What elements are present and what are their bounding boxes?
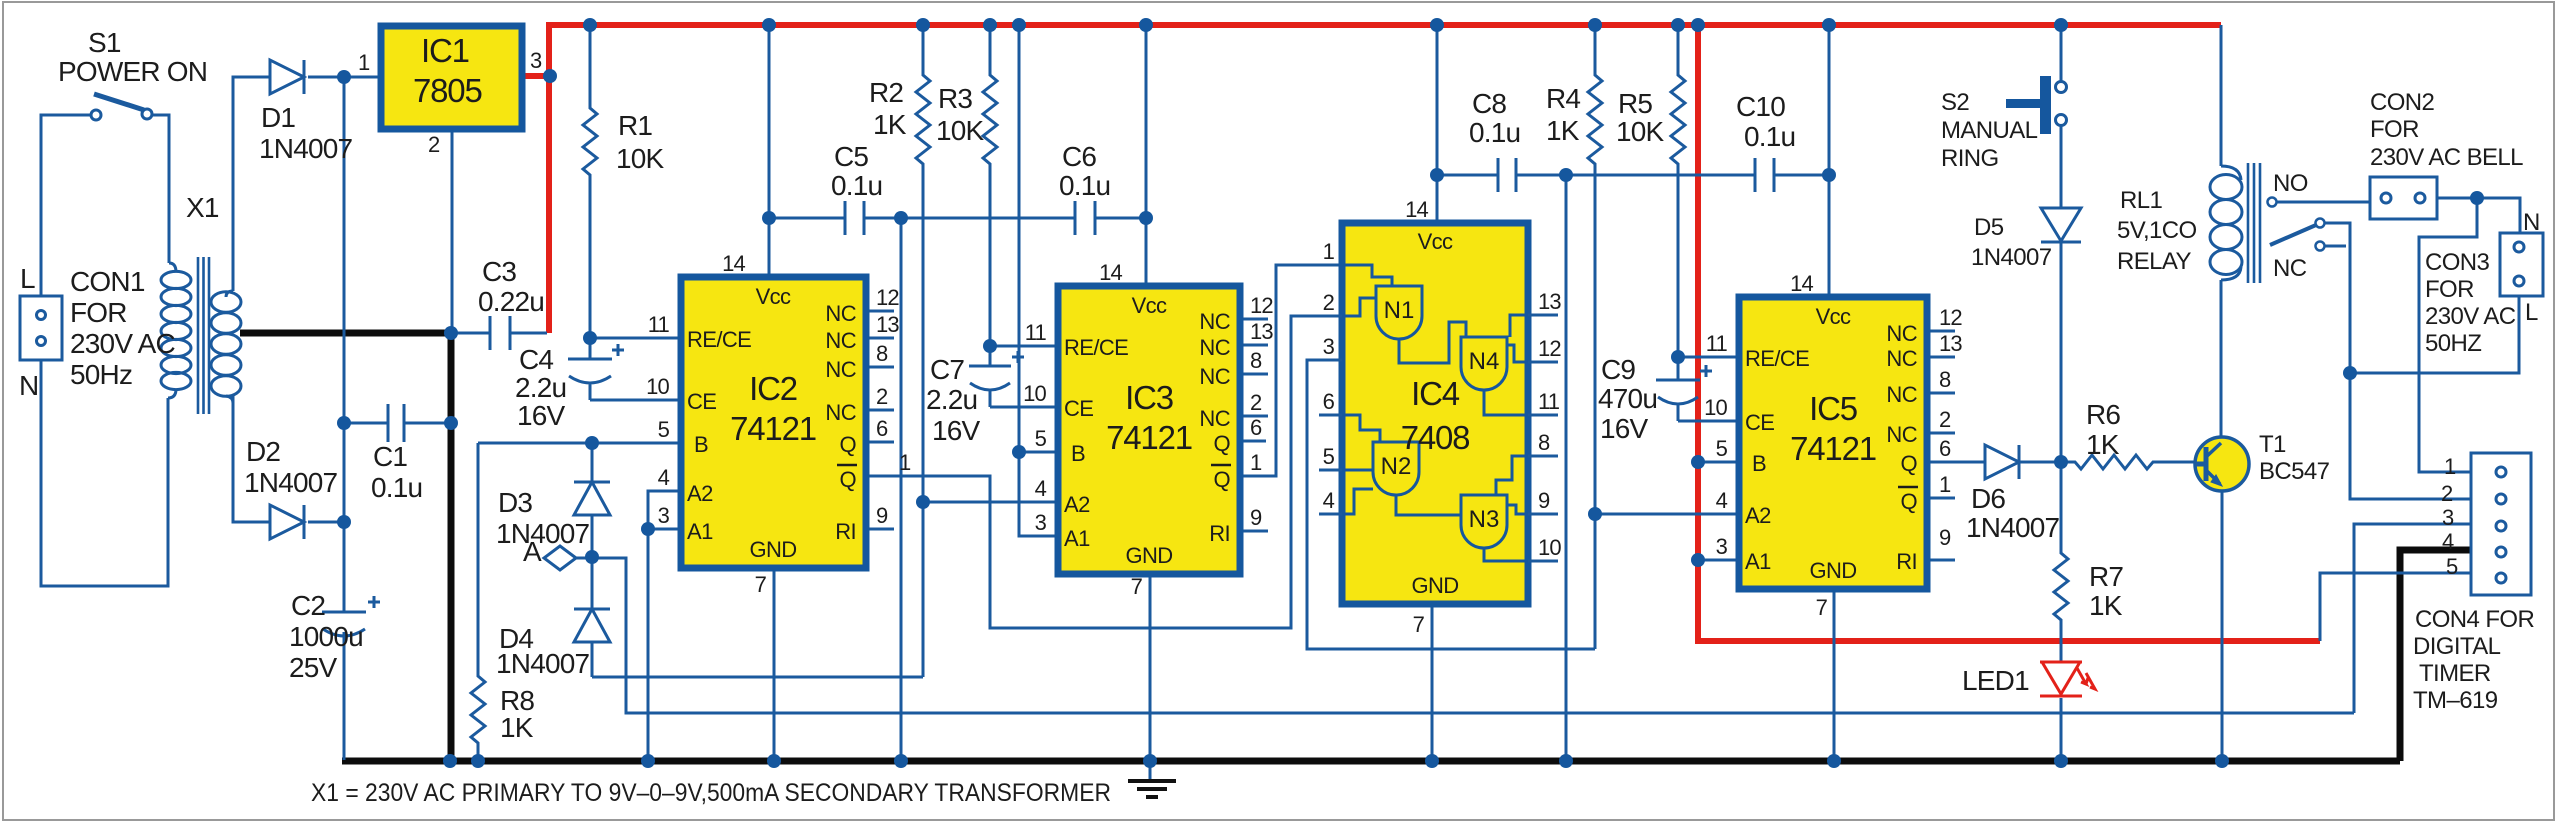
svg-text:FOR: FOR (70, 297, 127, 328)
resistor R3 (983, 25, 997, 346)
svg-text:A2: A2 (1064, 492, 1090, 517)
regulator IC1 7805 (381, 26, 522, 129)
labels IC1 (413, 32, 482, 109)
wire ground vertical (448, 333, 455, 761)
svg-text:7: 7 (755, 572, 767, 597)
wire CON4 pin4 ground (2400, 550, 2471, 761)
svg-text:74121: 74121 (730, 410, 816, 447)
capacitor C10 (1755, 158, 1829, 192)
svg-text:1: 1 (1939, 472, 1951, 497)
svg-text:NC: NC (825, 357, 856, 382)
wire R5 to IC5 RE/CE pin11 (1678, 356, 1739, 359)
connector CON1 (20, 296, 62, 360)
junction (769,218) (762, 211, 776, 225)
wire D2 cathode (308, 521, 344, 524)
relay pole wire to CON3 L net (2323, 223, 2350, 373)
junction (1829,25) (1822, 18, 1836, 32)
svg-text:Vcc: Vcc (1816, 304, 1851, 329)
junction (1146,218) (1139, 211, 1153, 225)
svg-text:NC: NC (1199, 406, 1230, 431)
svg-text:7: 7 (1413, 612, 1425, 637)
svg-text:RI: RI (1209, 521, 1230, 546)
svg-text:R3: R3 (938, 83, 972, 114)
svg-text:Q: Q (1213, 467, 1230, 492)
connector CON2 (2370, 177, 2437, 219)
svg-text:4: 4 (2442, 529, 2454, 554)
wire R3 to IC3 RE/CE pin11 (990, 345, 1058, 348)
junction (550,76) (543, 69, 557, 83)
wire IC5 pin7 GND (1833, 589, 1836, 760)
svg-text:5: 5 (658, 417, 670, 442)
svg-text:A2: A2 (1745, 503, 1771, 528)
labels right section (1941, 89, 2540, 714)
svg-text:RI: RI (1896, 549, 1917, 574)
svg-text:NC: NC (825, 301, 856, 326)
svg-text:11: 11 (648, 312, 670, 337)
svg-text:1: 1 (1323, 239, 1335, 264)
svg-text:L: L (2525, 299, 2538, 326)
svg-text:N1: N1 (1384, 297, 1415, 324)
junction (1678,25) (1671, 18, 1685, 32)
svg-text:FOR: FOR (2425, 276, 2474, 303)
wire relay coil to T1 collector (2220, 25, 2223, 437)
svg-text:A1: A1 (1064, 526, 1090, 551)
capacitor C2 (322, 596, 380, 636)
junction (1019,25) (1012, 18, 1026, 32)
wire +5V to CON4 pin5 (2320, 573, 2471, 641)
svg-text:NC: NC (825, 400, 856, 425)
svg-text:14: 14 (1790, 271, 1813, 296)
junction (478,761) (471, 754, 485, 768)
svg-text:12: 12 (876, 285, 899, 310)
svg-text:A: A (523, 536, 542, 567)
transistor T1 (2195, 437, 2249, 491)
capacitor C9 (1656, 357, 1700, 421)
svg-text:RE/CE: RE/CE (1745, 346, 1809, 371)
wire IC2 right NC stubs (866, 311, 894, 529)
svg-text:1: 1 (1250, 450, 1262, 475)
svg-text:C4: C4 (519, 344, 553, 375)
junction (344,423) (337, 416, 351, 430)
svg-text:CON3: CON3 (2425, 249, 2490, 276)
svg-text:Vcc: Vcc (756, 284, 791, 309)
svg-text:10K: 10K (936, 115, 985, 146)
push switch S2 (2006, 76, 2067, 134)
junction (1150,761) (1143, 754, 1157, 768)
svg-text:FOR: FOR (2370, 116, 2419, 143)
svg-text:5V,1CO: 5V,1CO (2117, 217, 2197, 244)
svg-text:470u: 470u (1598, 383, 1657, 414)
svg-text:S2: S2 (1941, 89, 1969, 116)
svg-text:D1: D1 (261, 102, 295, 133)
labels IC2 (687, 284, 857, 562)
wire C4 to IC2 CE pin10 (590, 399, 681, 402)
svg-text:D6: D6 (1971, 483, 2005, 514)
svg-text:1N4007: 1N4007 (244, 467, 338, 498)
wire S2 to D5 (2060, 25, 2063, 208)
svg-text:12: 12 (1538, 336, 1561, 361)
capacitor C4 (568, 338, 612, 400)
junction (1019,452) (1012, 445, 1026, 459)
svg-text:CE: CE (1064, 396, 1093, 421)
relay RL1 coil (2210, 163, 2260, 283)
svg-text:7: 7 (1131, 574, 1143, 599)
wire CON2 to CON3 N (2437, 198, 2520, 233)
svg-text:74121: 74121 (1790, 430, 1876, 467)
svg-text:4: 4 (1716, 488, 1728, 513)
LED1 (2040, 662, 2095, 696)
svg-text:3: 3 (530, 48, 542, 73)
svg-text:POWER ON: POWER ON (58, 56, 207, 87)
svg-text:BC547: BC547 (2259, 458, 2330, 485)
junction (923,502) (916, 495, 930, 509)
junction (344,77) (337, 70, 351, 84)
svg-text:IC2: IC2 (749, 370, 797, 407)
svg-text:1N4007: 1N4007 (259, 133, 353, 164)
junction (344,522) (337, 515, 351, 529)
svg-text:N2: N2 (1381, 453, 1412, 480)
svg-text:C10: C10 (1736, 91, 1785, 122)
svg-text:S1: S1 (88, 27, 121, 58)
junction (2477,198) (2470, 191, 2484, 205)
svg-text:5: 5 (1323, 444, 1335, 469)
wire ground rail (342, 758, 2400, 765)
svg-text:1N4007: 1N4007 (1971, 244, 2052, 271)
svg-text:3: 3 (1035, 510, 1047, 535)
IC4 left pin stubs (1319, 316, 1342, 514)
svg-text:9: 9 (876, 503, 888, 528)
ground black wires (240, 333, 2471, 761)
svg-text:50HZ: 50HZ (2425, 330, 2481, 357)
wire C9 to IC5 CE pin10 (1678, 420, 1739, 423)
svg-text:10: 10 (646, 374, 669, 399)
wire IC3 Q-bar pin1 to IC4 pin1 (1240, 265, 1342, 476)
svg-text:MANUAL: MANUAL (1941, 117, 2038, 144)
wire R1 to IC2 RE/CE pin11 (590, 337, 681, 340)
resistor R7 (2054, 462, 2068, 662)
svg-text:14: 14 (722, 251, 745, 276)
svg-text:1: 1 (2444, 454, 2456, 479)
svg-text:1: 1 (358, 50, 370, 75)
svg-text:CON2: CON2 (2370, 89, 2435, 116)
svg-text:GND: GND (1411, 573, 1458, 598)
svg-text:RL1: RL1 (2120, 187, 2162, 214)
svg-text:L: L (20, 263, 35, 294)
wire raw DC vertical (343, 77, 346, 612)
svg-text:NO: NO (2273, 170, 2308, 197)
+5V red rail (522, 25, 2320, 641)
svg-text:0.1u: 0.1u (1469, 117, 1520, 148)
relay NO contact wire to CON2 (2276, 201, 2370, 204)
svg-text:5: 5 (1716, 436, 1728, 461)
wire IC1 pin2 (451, 129, 454, 333)
capacitor C3 (451, 316, 547, 350)
IC2 74121 box (681, 277, 866, 568)
wire C8 node to ground rail (1565, 175, 1568, 760)
svg-text:2: 2 (428, 132, 440, 157)
svg-text:2: 2 (1250, 390, 1262, 415)
svg-text:25V: 25V (289, 652, 338, 683)
svg-text:0.1u: 0.1u (371, 472, 422, 503)
svg-text:16V: 16V (1600, 413, 1649, 444)
junction (1698,25) (1691, 18, 1705, 32)
IC4 right pin stubs (1528, 315, 1558, 561)
svg-text:R5: R5 (1618, 88, 1652, 119)
labels IC4 (1411, 229, 1458, 598)
svg-text:1K: 1K (2086, 429, 2120, 460)
junction (451,333) (444, 326, 458, 340)
diode D6 (1985, 445, 2061, 479)
svg-text:RE/CE: RE/CE (1064, 335, 1128, 360)
svg-text:1000u: 1000u (289, 621, 363, 652)
capacitor C5 (769, 201, 1075, 235)
wire CON1 L to switch (41, 115, 91, 296)
labels IC5 (1745, 304, 1918, 583)
labels left section (19, 27, 665, 743)
wire CON3 L to NC net (2350, 296, 2519, 373)
connector CON4 (2471, 453, 2531, 595)
transformer X1 (161, 257, 241, 414)
svg-text:3: 3 (1323, 334, 1335, 359)
wire IC2 A2 A1 to ground (648, 491, 681, 760)
junction (1595,514) (1588, 507, 1602, 521)
svg-text:IC5: IC5 (1809, 390, 1857, 427)
svg-text:RELAY: RELAY (2117, 248, 2192, 275)
svg-text:B: B (1071, 441, 1085, 466)
svg-text:Q: Q (839, 432, 856, 457)
svg-text:C9: C9 (1601, 354, 1635, 385)
svg-text:CON1: CON1 (70, 266, 145, 297)
resistor R1 (583, 25, 597, 338)
junction (2222,761) (2215, 754, 2229, 768)
wire NC net to CON4 pin2 (2350, 373, 2471, 499)
svg-text:N: N (2523, 209, 2540, 236)
svg-text:1K: 1K (873, 109, 907, 140)
svg-text:2: 2 (1939, 407, 1951, 432)
svg-text:2.2u: 2.2u (515, 372, 566, 403)
wire IC4 pin7 GND (1431, 604, 1434, 760)
junction (1698,462) (1691, 455, 1705, 469)
ground symbol (1128, 761, 1176, 797)
junction (1146,25) (1139, 18, 1153, 32)
svg-text:1N4007: 1N4007 (1966, 512, 2060, 543)
capacitor C8 (1437, 158, 1755, 192)
wire IC2 pin14 Vcc (768, 25, 771, 277)
plus sign C7 (1012, 351, 1024, 363)
svg-text:RE/CE: RE/CE (687, 327, 751, 352)
wire D1 to IC1 pin1 (308, 76, 381, 79)
svg-text:R6: R6 (2086, 399, 2120, 430)
svg-text:A1: A1 (1745, 549, 1771, 574)
capacitor C6 (1075, 201, 1146, 235)
svg-text:C2: C2 (291, 590, 325, 621)
svg-text:10K: 10K (1616, 116, 1665, 147)
svg-text:R2: R2 (869, 77, 903, 108)
svg-text:0.22u: 0.22u (478, 286, 544, 317)
wire IC3 right NC stubs (1240, 319, 1268, 416)
junction (901,218) (894, 211, 908, 225)
svg-text:C6: C6 (1062, 141, 1096, 172)
svg-text:4: 4 (1035, 476, 1047, 501)
junction (1437,175) (1430, 168, 1444, 182)
svg-text:50Hz: 50Hz (70, 359, 132, 390)
junction (901,761) (894, 754, 908, 768)
wire IC3 Q pin6 stub (1240, 440, 1266, 443)
wire CON1 N loop (41, 360, 168, 586)
svg-text:8: 8 (1250, 348, 1262, 373)
resistor R2 (916, 25, 930, 677)
wire C7 to IC3 CE pin10 (990, 406, 1058, 409)
svg-text:A2: A2 (687, 481, 713, 506)
svg-text:5: 5 (1035, 426, 1047, 451)
svg-text:Q: Q (839, 467, 856, 492)
svg-text:D3: D3 (498, 487, 532, 518)
wire IC5 pin14 Vcc (1828, 25, 1831, 297)
svg-text:2.2u: 2.2u (926, 384, 977, 415)
junction (648,529) (641, 522, 655, 536)
svg-text:CON4 FOR: CON4 FOR (2415, 606, 2534, 633)
junction (1834,761) (1827, 754, 1841, 768)
capacitor C7 (969, 346, 1011, 407)
relay contacts (2268, 198, 2325, 251)
svg-text:2: 2 (2441, 481, 2453, 506)
junction (1432,761) (1425, 754, 1439, 768)
wire D4 to R2 bottom (592, 676, 923, 679)
diode D1 (270, 60, 304, 94)
svg-text:1K: 1K (1546, 115, 1580, 146)
junction (590,25) (583, 18, 597, 32)
svg-text:9: 9 (1939, 525, 1951, 550)
svg-text:Vcc: Vcc (1132, 293, 1167, 318)
svg-text:13: 13 (876, 312, 899, 337)
IC3 74121 box (1058, 286, 1240, 574)
svg-text:0.1u: 0.1u (1744, 121, 1795, 152)
resistor R6 (2061, 455, 2195, 469)
wire IC3 pin7 GND (1149, 574, 1152, 760)
svg-text:B: B (694, 432, 708, 457)
svg-text:LED1: LED1 (1962, 665, 2029, 696)
svg-text:NC: NC (1199, 364, 1230, 389)
gate N1 (1342, 265, 1466, 363)
wire center tap (240, 330, 451, 337)
wire T1 emitter to ground rail (2221, 491, 2224, 760)
svg-text:6: 6 (1250, 415, 1262, 440)
svg-text:3: 3 (1716, 534, 1728, 559)
labels middle section (831, 77, 1795, 446)
svg-text:TIMER: TIMER (2419, 660, 2491, 687)
wire node A to CON4 pin3 net (592, 558, 2354, 713)
wire IC5 Q pin6 to D6 (1927, 461, 1985, 464)
junction (592,557) (585, 550, 599, 564)
wire IC3 pin14 Vcc (1145, 25, 1148, 286)
svg-text:11: 11 (1538, 389, 1560, 414)
svg-text:IC3: IC3 (1125, 379, 1173, 416)
svg-text:7408: 7408 (1401, 419, 1470, 456)
junction (774,761) (767, 754, 781, 768)
svg-text:RI: RI (835, 519, 856, 544)
svg-text:2: 2 (876, 384, 888, 409)
wire X1 secondary top to D1 (233, 77, 270, 291)
wire IC2 Q-bar pin1 to IC4 pin2 (866, 316, 1342, 628)
junction (923,25) (916, 18, 930, 32)
svg-text:RING: RING (1941, 145, 1999, 172)
junction (2061,462) (2054, 455, 2068, 469)
wire IC3 RI pin9 stub (1240, 530, 1268, 533)
wire IC2 B pin5 (478, 442, 681, 445)
resistor R8 (471, 443, 485, 760)
svg-text:14: 14 (1099, 260, 1122, 285)
svg-text:9: 9 (1250, 505, 1262, 530)
svg-text:13: 13 (1538, 289, 1561, 314)
svg-text:3: 3 (658, 503, 670, 528)
junction (2061,761) (2054, 754, 2068, 768)
svg-text:C1: C1 (373, 441, 407, 472)
svg-text:230V AC BELL: 230V AC BELL (2370, 144, 2523, 171)
wire IC2 pin7 GND (773, 568, 776, 760)
svg-text:IC4: IC4 (1411, 375, 1460, 412)
gate N3 (1461, 456, 1528, 561)
svg-text:NC: NC (1199, 309, 1230, 334)
svg-text:1N4007: 1N4007 (496, 518, 590, 549)
svg-text:N: N (19, 370, 38, 401)
svg-text:NC: NC (1886, 422, 1917, 447)
svg-text:10: 10 (1538, 535, 1561, 560)
svg-text:NC: NC (1886, 346, 1917, 371)
svg-text:Q: Q (1213, 431, 1230, 456)
svg-text:4: 4 (658, 465, 670, 490)
svg-text:NC: NC (2273, 255, 2307, 282)
svg-text:74121: 74121 (1106, 419, 1192, 456)
svg-text:230V AC: 230V AC (2425, 303, 2516, 330)
svg-text:8: 8 (876, 341, 888, 366)
svg-text:GND: GND (1809, 558, 1856, 583)
svg-text:7805: 7805 (413, 72, 482, 109)
svg-text:6: 6 (1939, 436, 1951, 461)
junction (2061,25) (2054, 18, 2068, 32)
svg-text:D2: D2 (246, 436, 280, 467)
svg-text:NC: NC (825, 328, 856, 353)
svg-text:DIGITAL: DIGITAL (2413, 633, 2501, 660)
svg-text:C7: C7 (930, 354, 964, 385)
wire R2 to IC3 A2 pin4 (923, 501, 1058, 504)
svg-text:B: B (1752, 451, 1766, 476)
svg-text:12: 12 (1250, 293, 1273, 318)
resistor R5 (1671, 25, 1685, 357)
junction (1437,25) (1430, 18, 1444, 32)
svg-text:9: 9 (1538, 488, 1550, 513)
svg-text:1K: 1K (2089, 590, 2123, 621)
wire bell node to CON4 pin1 (2419, 198, 2477, 472)
IC4 7408 box (1342, 223, 1528, 604)
junction (1698,560) (1691, 553, 1705, 567)
svg-text:7: 7 (1816, 595, 1828, 620)
IC5 74121 box (1739, 297, 1927, 589)
wire CON4 pin3 (2354, 524, 2471, 713)
junction (592,443) (585, 436, 599, 450)
junction (2350,373) (2343, 366, 2357, 380)
svg-text:5: 5 (2446, 554, 2458, 579)
wire IC5 B pin5 to +5V (1698, 461, 1739, 464)
svg-text:1K: 1K (500, 712, 534, 743)
svg-text:D5: D5 (1974, 214, 2004, 241)
diode D5 (2041, 208, 2081, 462)
junction (1566,175) (1559, 168, 1573, 182)
svg-text:2: 2 (1323, 290, 1335, 315)
junction (990,346) (983, 339, 997, 353)
svg-text:4: 4 (1323, 488, 1335, 513)
svg-text:8: 8 (1538, 430, 1550, 455)
svg-text:R7: R7 (2089, 561, 2123, 592)
